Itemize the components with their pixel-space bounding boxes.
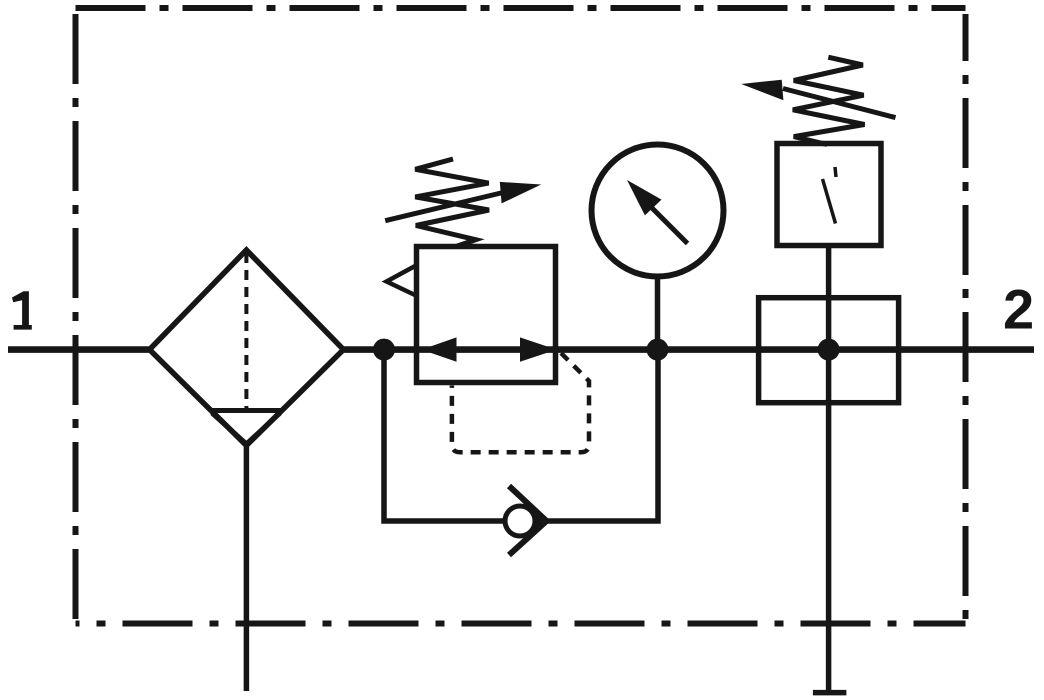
svg-text:2: 2: [1003, 278, 1034, 341]
